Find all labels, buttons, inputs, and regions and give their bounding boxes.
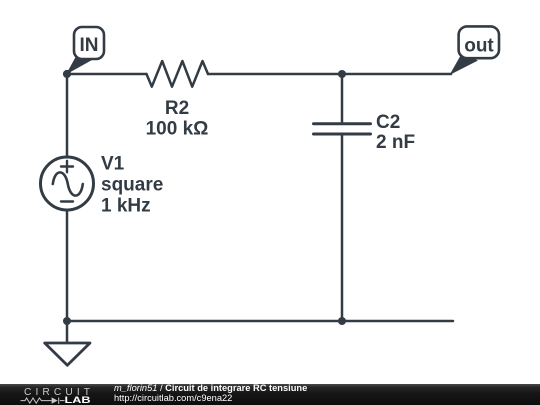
footer attribution text xyxy=(114,384,307,404)
footer bar xyxy=(0,384,540,405)
svg-text:100 kΩ: 100 kΩ xyxy=(146,119,209,140)
wire: V1 to ground node xyxy=(66,211,69,322)
node: ground rail junction dot xyxy=(63,317,71,325)
wire: resistor to out xyxy=(208,73,451,76)
flag IN xyxy=(66,27,104,75)
flag out xyxy=(450,26,500,75)
resistor R2 xyxy=(147,61,209,87)
svg-text:square: square xyxy=(101,175,163,196)
wire: IN node down to V1 xyxy=(66,74,69,157)
node: cap top junction dot xyxy=(338,70,346,78)
svg-text:V1: V1 xyxy=(101,154,125,175)
svg-text:1 kHz: 1 kHz xyxy=(101,196,151,217)
svg-text:LAB: LAB xyxy=(65,395,91,405)
node: cap bottom junction dot xyxy=(338,317,346,325)
voltage source V1 xyxy=(41,157,94,210)
capacitor C2 xyxy=(314,124,371,134)
svg-text:R2: R2 xyxy=(165,98,189,119)
wire: ground stub xyxy=(66,321,69,343)
wire: IN node to resistor xyxy=(67,73,147,76)
node IN junction dot xyxy=(63,70,71,78)
label V1 value xyxy=(101,154,163,217)
label C2 value xyxy=(376,112,415,153)
wire: capacitor to bottom rail xyxy=(341,134,344,321)
svg-text:2 nF: 2 nF xyxy=(376,132,415,153)
svg-text:out: out xyxy=(464,36,494,57)
label R2 value xyxy=(146,98,209,140)
svg-text:C2: C2 xyxy=(376,112,400,133)
wire: bottom rail xyxy=(67,320,453,323)
svg-text:IN: IN xyxy=(80,35,99,56)
CircuitLab logo xyxy=(0,384,110,405)
wire: top node down to capacitor xyxy=(341,74,344,124)
ground xyxy=(45,343,90,365)
